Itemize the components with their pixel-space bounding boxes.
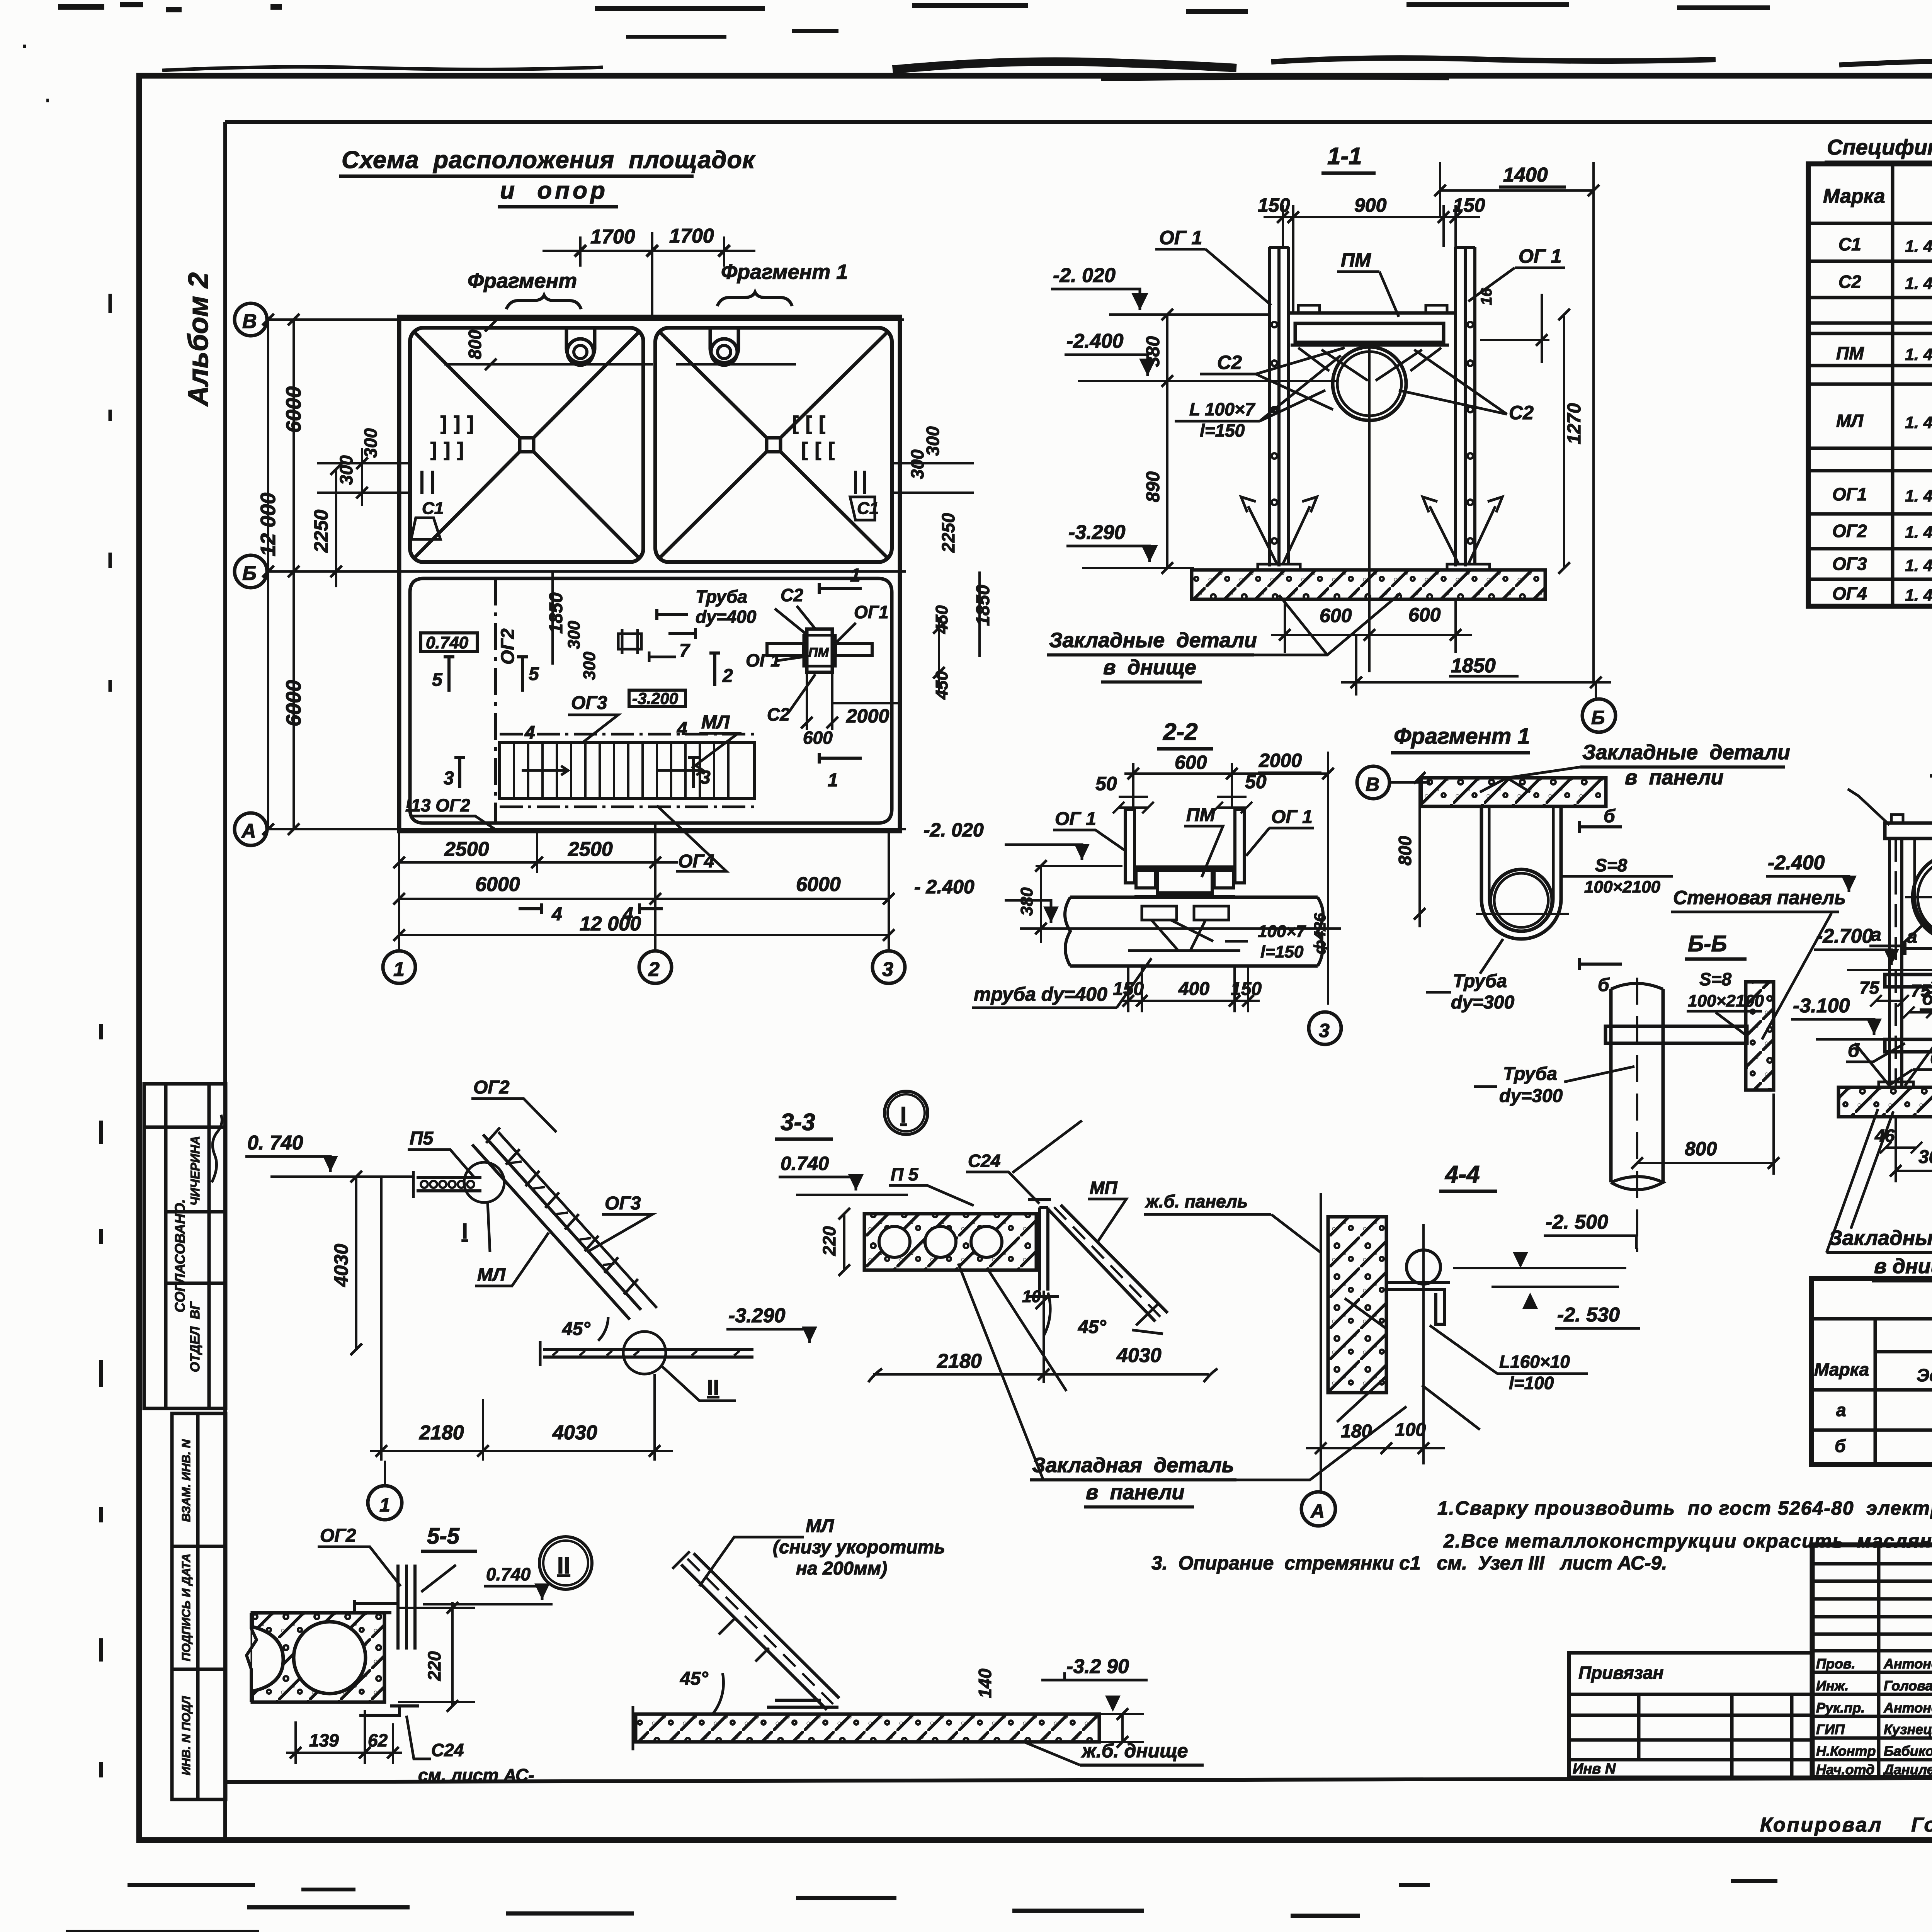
svg-text:С2: С2 xyxy=(767,704,790,724)
detail circle I at top xyxy=(464,1162,504,1202)
platform top plate xyxy=(1289,311,1457,315)
svg-text:7: 7 xyxy=(679,641,690,661)
svg-text:Закладные детали: Закладные детали xyxy=(1049,629,1257,652)
svg-text:0.740: 0.740 xyxy=(486,1564,531,1584)
svg-text:300: 300 xyxy=(336,455,356,485)
svg-text:45°: 45° xyxy=(680,1668,708,1689)
svg-text:труба dy=400: труба dy=400 xyxy=(974,983,1107,1005)
svg-text:Антонова: Антонова xyxy=(1883,1656,1932,1672)
svg-text:Труба: Труба xyxy=(1453,971,1507,992)
svg-text:ОГ4: ОГ4 xyxy=(1832,583,1867,604)
svg-text:0.740: 0.740 xyxy=(781,1153,829,1174)
svg-text:и опор: и опор xyxy=(500,177,608,204)
section marks 1 right xyxy=(819,583,862,594)
svg-text:Марка: Марка xyxy=(1823,185,1885,207)
svg-text:Б: Б xyxy=(242,562,257,585)
svg-text:L160×10: L160×10 xyxy=(1499,1352,1570,1372)
svg-text:1. 450. 3 - 3. 1: 1. 450. 3 - 3. 1 xyxy=(1905,274,1932,293)
main title block xyxy=(1812,1545,1932,1777)
svg-text:МЛ: МЛ xyxy=(701,712,730,733)
svg-text:S=8: S=8 xyxy=(1595,855,1628,875)
signature squiggle xyxy=(212,1115,222,1182)
svg-text:-2.400: -2.400 xyxy=(1066,330,1124,352)
svg-text:П5: П5 xyxy=(410,1128,434,1149)
bottom dim 2500 2500 xyxy=(399,861,678,864)
ladder МП xyxy=(1048,1205,1168,1321)
panel with holes xyxy=(864,1214,1036,1270)
axis row circle В xyxy=(235,303,267,336)
svg-text:ЧИЧЕРИНА: ЧИЧЕРИНА xyxy=(188,1136,202,1206)
svg-text:dy=300: dy=300 xyxy=(1451,992,1514,1013)
svg-text:-3.2 90: -3.2 90 xyxy=(1066,1655,1129,1678)
SEC33 xyxy=(245,1077,833,1520)
svg-text:600: 600 xyxy=(803,728,833,748)
svg-text:б: б xyxy=(1598,975,1610,995)
svg-text:l=100: l=100 xyxy=(1509,1373,1554,1393)
leader to panel xyxy=(1480,767,1580,792)
svg-text:4030: 4030 xyxy=(330,1244,352,1287)
right tank X diagonals xyxy=(661,333,886,557)
svg-text:3: 3 xyxy=(444,768,454,789)
svg-text:ОГ3: ОГ3 xyxy=(571,693,607,713)
column extension lines xyxy=(398,831,400,951)
svg-text:Закладные детали: Закладные детали xyxy=(1582,741,1790,764)
svg-text:-2. 530: -2. 530 xyxy=(1557,1304,1620,1326)
SEC44 xyxy=(1301,1161,1640,1526)
svg-text:б: б xyxy=(1835,1436,1846,1456)
svg-text:1-1: 1-1 xyxy=(1327,143,1362,170)
svg-text:б: б xyxy=(1922,988,1932,1009)
-3.200 boxed level xyxy=(629,690,685,706)
svg-text:ОГ2: ОГ2 xyxy=(473,1077,510,1098)
svg-text:-3.200: -3.200 xyxy=(632,689,678,707)
svg-text:I: I xyxy=(462,1219,468,1243)
svg-text:а: а xyxy=(1871,925,1881,945)
svg-text:6000: 6000 xyxy=(475,873,520,896)
svg-text:150: 150 xyxy=(1453,194,1485,216)
svg-text:ж.б. панель: ж.б. панель xyxy=(1145,1191,1248,1211)
svg-text:Голованова: Голованова xyxy=(1884,1678,1932,1694)
left inner margin line xyxy=(223,122,227,1840)
svg-text:Закладные детали: Закладные детали xyxy=(1829,1226,1932,1250)
platform beam xyxy=(1295,323,1444,342)
svg-text:1. 450. 3 - 3. 1: 1. 450. 3 - 3. 1 xyxy=(1905,487,1932,505)
svg-text:1850: 1850 xyxy=(973,585,993,626)
svg-text:Данилевский: Данилевский xyxy=(1883,1762,1932,1777)
svg-text:45°: 45° xyxy=(1078,1317,1106,1337)
small circle (bar) xyxy=(1406,1250,1440,1284)
big pipe xyxy=(1070,897,1318,966)
top-left corner smudges xyxy=(58,5,282,10)
SEC55 xyxy=(247,1524,592,1785)
top cap beam xyxy=(1885,823,1932,838)
svg-text:5-5: 5-5 xyxy=(427,1524,460,1549)
left margin table Согласовано xyxy=(144,1084,226,1408)
svg-text:-2.700: -2.700 xyxy=(1816,925,1873,947)
svg-text:10: 10 xyxy=(1022,1287,1041,1306)
svg-text:2180: 2180 xyxy=(419,1422,464,1444)
svg-text:ОТДЕЛ ВГ: ОТДЕЛ ВГ xyxy=(188,1301,202,1372)
svg-text:600: 600 xyxy=(1320,605,1352,626)
svg-text:900: 900 xyxy=(1354,194,1387,216)
svg-text:Марка: Марка xyxy=(1814,1359,1869,1379)
top streak left xyxy=(162,67,603,70)
dim 2250 + 300 left xyxy=(335,469,337,587)
svg-text:180: 180 xyxy=(1341,1421,1372,1442)
small pipe mark mid xyxy=(618,629,641,654)
svg-text:1. 450 3 - 3. 1: 1. 450 3 - 3. 1 xyxy=(1905,413,1932,432)
svg-text:Нач.отд: Нач.отд xyxy=(1816,1762,1874,1777)
svg-text:С2: С2 xyxy=(1509,402,1534,423)
left tank X diagonals xyxy=(415,333,638,557)
svg-text:1700: 1700 xyxy=(590,226,635,248)
platform assembly xyxy=(1134,866,1235,869)
VEDOMOST xyxy=(1811,1279,1932,1464)
svg-text:100×2100: 100×2100 xyxy=(1584,878,1661,896)
svg-text:220: 220 xyxy=(819,1226,839,1256)
section mark б lower xyxy=(1580,958,1622,970)
svg-text:МП: МП xyxy=(1090,1178,1117,1198)
U-loop hanger xyxy=(1481,806,1561,939)
svg-text:ОГ 1: ОГ 1 xyxy=(1519,245,1561,267)
svg-text:1: 1 xyxy=(393,958,405,981)
svg-text:2250: 2250 xyxy=(310,510,332,553)
svg-text:800: 800 xyxy=(1685,1138,1717,1160)
svg-text:dy=400: dy=400 xyxy=(696,607,757,627)
svg-text:140: 140 xyxy=(975,1668,995,1698)
svg-text:-3.100: -3.100 xyxy=(1793,995,1850,1017)
svg-text:Фрагмент: Фрагмент xyxy=(468,269,577,293)
svg-text:С24: С24 xyxy=(968,1151,1000,1171)
svg-text:II: II xyxy=(707,1375,719,1400)
svg-text:С2: С2 xyxy=(1838,272,1861,292)
svg-text:4: 4 xyxy=(677,719,687,739)
svg-text:139: 139 xyxy=(309,1730,339,1750)
axis vertical line xyxy=(1320,1193,1322,1464)
section marks 5 5 xyxy=(444,657,454,692)
svg-text:1: 1 xyxy=(850,565,861,586)
anchor V left xyxy=(1248,506,1310,564)
svg-text:Бабикова.: Бабикова. xyxy=(1884,1743,1932,1759)
section marks 3 3 xyxy=(454,757,465,788)
svg-text:II: II xyxy=(557,1553,570,1578)
svg-text:2000: 2000 xyxy=(1259,750,1302,771)
svg-text:5: 5 xyxy=(529,664,539,684)
svg-text:380: 380 xyxy=(1143,336,1163,367)
centerline xyxy=(1368,348,1371,672)
svg-text:в панели: в панели xyxy=(1086,1481,1185,1504)
svg-text:ОГ1: ОГ1 xyxy=(854,602,889,622)
SEC22 xyxy=(914,719,1341,1044)
svg-text:1. 450. 3 - 3. 1: 1. 450. 3 - 3. 1 xyxy=(1905,237,1932,256)
floor band hatched xyxy=(636,1714,1099,1742)
svg-text:800: 800 xyxy=(1395,836,1415,866)
DETI xyxy=(779,1091,1406,1507)
bottom dim 6000 6000 xyxy=(399,898,889,900)
С24 bracket vertical xyxy=(1028,1200,1059,1296)
svg-text:3-3: 3-3 xyxy=(781,1109,815,1136)
svg-text:ИНВ. N ПОДЛ: ИНВ. N ПОДЛ xyxy=(179,1696,193,1776)
right post ОГ1 xyxy=(1456,247,1475,566)
svg-text:ВЗАМ. ИНВ. N: ВЗАМ. ИНВ. N xyxy=(179,1439,193,1522)
svg-text:МЛ: МЛ xyxy=(1836,411,1864,431)
svg-text:ПМ: ПМ xyxy=(808,645,829,660)
ladder rungs xyxy=(486,1128,638,1294)
left post ОГ1 xyxy=(1269,247,1289,566)
svg-text:2.Все металлоконструкции окрас: 2.Все металлоконструкции окрасить маслян… xyxy=(1443,1530,1932,1552)
svg-text:ОГ3: ОГ3 xyxy=(1832,554,1867,574)
svg-text:!13 ОГ2: !13 ОГ2 xyxy=(405,795,470,815)
vertical line down from bracket xyxy=(1043,1291,1045,1383)
svg-text:1850: 1850 xyxy=(1451,655,1496,677)
svg-text:6000: 6000 xyxy=(282,680,305,726)
dim 1270 right xyxy=(1563,315,1565,568)
svg-text:6000: 6000 xyxy=(282,386,305,433)
column circle 1 xyxy=(384,1461,386,1486)
big pipe circle xyxy=(1913,854,1932,940)
svg-text:5: 5 xyxy=(432,670,443,690)
svg-text:на 200мм): на 200мм) xyxy=(796,1558,887,1579)
content bottom line xyxy=(225,1777,1932,1782)
left tank top notch + drain circle xyxy=(566,328,595,363)
С24 bracket xyxy=(398,1565,415,1650)
svg-text:l=150: l=150 xyxy=(1260,942,1304,961)
pipe detail ПМ box xyxy=(807,629,832,672)
svg-text:4: 4 xyxy=(551,904,562,925)
svg-text:а: а xyxy=(1836,1400,1846,1420)
svg-text:ж.б. днище: ж.б. днище xyxy=(1081,1740,1188,1762)
bottom dim 12000 xyxy=(399,934,889,936)
svg-text:S=8: S=8 xyxy=(1699,969,1732,989)
TITLEBLOCK xyxy=(1569,1545,1932,1838)
svg-text:1: 1 xyxy=(379,1494,390,1516)
panel hatched with circles xyxy=(252,1613,384,1702)
svg-text:ОГ1: ОГ1 xyxy=(1832,484,1867,504)
top inner band line xyxy=(225,120,1932,124)
svg-text:СОГЛАСОВАНО.: СОГЛАСОВАНО. xyxy=(172,1199,188,1312)
vertical dim 380/890 xyxy=(1166,315,1168,568)
left vertical dim 12000 xyxy=(267,320,269,829)
column circle 1 xyxy=(383,951,415,983)
left tank rounded square xyxy=(410,328,643,562)
base plates xyxy=(1879,1082,1913,1087)
floor hatched xyxy=(1838,1087,1932,1117)
svg-text:МЛ: МЛ xyxy=(477,1265,506,1285)
left tank centre square xyxy=(520,438,534,452)
svg-text:2500: 2500 xyxy=(444,838,489,861)
right tank top notch + drain circle xyxy=(710,328,738,363)
svg-text:[[[: [[[ xyxy=(801,439,842,460)
Привязан mini table xyxy=(1569,1653,1812,1777)
svg-text:Н.Контр: Н.Контр xyxy=(1816,1743,1876,1759)
svg-text:ПМ: ПМ xyxy=(1186,805,1216,825)
svg-text:380: 380 xyxy=(1017,887,1036,916)
svg-text:1. 450. 3 - 3. 1: 1. 450. 3 - 3. 1 xyxy=(1905,345,1932,364)
svg-text:ОГ2: ОГ2 xyxy=(1832,521,1867,541)
svg-text:Привязан: Привязан xyxy=(1578,1663,1663,1683)
svg-text:Закладная деталь: Закладная деталь xyxy=(1032,1454,1234,1477)
top heavy streaks middle xyxy=(893,61,1236,70)
column circle 2 xyxy=(639,951,672,983)
floor slab hatched xyxy=(1192,570,1545,599)
dim 800 xyxy=(1418,778,1421,927)
svg-text:3: 3 xyxy=(882,958,893,981)
svg-text:-3.290: -3.290 xyxy=(728,1304,786,1327)
svg-text:3: 3 xyxy=(700,767,711,788)
svg-text:1850: 1850 xyxy=(546,592,566,634)
wall panel hatched xyxy=(1746,982,1774,1090)
SEC77 xyxy=(1827,746,1932,1281)
svg-text:С2: С2 xyxy=(781,585,803,605)
В axis circle xyxy=(1357,766,1389,799)
svg-text:Схема расположения площадок: Схема расположения площадок xyxy=(342,146,756,173)
svg-text:1.Сварку производить по гост: 1.Сварку производить по гост 5264-80 эле… xyxy=(1437,1497,1932,1519)
DETII xyxy=(633,1516,1204,1765)
svg-text:Альбом 2: Альбом 2 xyxy=(183,272,214,407)
svg-text:0.740: 0.740 xyxy=(426,633,469,652)
foot plate xyxy=(767,1700,838,1707)
svg-text:3: 3 xyxy=(1319,1020,1330,1041)
svg-text:Труба: Труба xyxy=(696,587,747,607)
svg-text:Фрагмент 1: Фрагмент 1 xyxy=(1394,724,1530,749)
mid beam xyxy=(1885,975,1932,987)
Б circle below xyxy=(1595,682,1597,699)
svg-text:Рук.пр.: Рук.пр. xyxy=(1816,1700,1865,1716)
pipe circle dy300 xyxy=(1490,869,1552,931)
svg-text:В: В xyxy=(242,310,257,333)
left edge dashes xyxy=(99,1024,103,1777)
svg-text:2180: 2180 xyxy=(937,1350,982,1372)
svg-text:890: 890 xyxy=(1143,471,1163,502)
svg-text:Кузнецов: Кузнецов xyxy=(1884,1721,1932,1737)
svg-text:МЛ: МЛ xyxy=(806,1516,834,1536)
svg-text:- 2.400: - 2.400 xyxy=(914,876,975,898)
dash-dot line above stair xyxy=(500,733,754,736)
right tank centre square xyxy=(767,438,781,452)
svg-text:2250: 2250 xyxy=(938,513,958,553)
svg-text:100: 100 xyxy=(1395,1420,1426,1440)
right tank rounded square xyxy=(655,328,892,562)
lower room rounded rect xyxy=(410,578,892,823)
SPECTABLE xyxy=(1808,135,1932,606)
svg-text:в панели: в панели xyxy=(1625,766,1724,789)
C1 ladder stub left xyxy=(399,471,433,494)
left post xyxy=(1889,838,1902,1087)
svg-text:Антонова: Антонова xyxy=(1883,1700,1932,1716)
vertical dim 4030 xyxy=(355,1177,357,1349)
ladder xyxy=(681,1553,839,1710)
anchor V right xyxy=(1430,506,1495,564)
section marks 2 xyxy=(709,653,720,686)
220 dim xyxy=(451,1602,454,1706)
anchors xyxy=(1855,1043,1932,1086)
svg-text:4030: 4030 xyxy=(1116,1344,1162,1367)
U hanger around pipe xyxy=(1915,838,1932,938)
svg-text:-2. 020: -2. 020 xyxy=(1053,264,1116,287)
left vertical dim 6000/6000 xyxy=(293,320,295,829)
0.740 boxed level xyxy=(421,633,477,651)
svg-text:45°: 45° xyxy=(562,1319,590,1339)
svg-text:1. 450. 3 -3. 1: 1. 450. 3 -3. 1 xyxy=(1905,586,1932,605)
pipe circle xyxy=(1333,347,1406,420)
svg-text:1270: 1270 xyxy=(1564,403,1585,444)
svg-text:С1: С1 xyxy=(1838,234,1861,254)
svg-text:П 5: П 5 xyxy=(891,1164,919,1184)
svg-text:300: 300 xyxy=(565,621,583,649)
axis line Б xyxy=(267,570,906,573)
svg-text:ПМ: ПМ xyxy=(1341,249,1371,271)
post right xyxy=(1235,810,1244,883)
svg-text:А: А xyxy=(1310,1500,1325,1522)
svg-text:-2. 500: -2. 500 xyxy=(1546,1211,1608,1233)
svg-text:300: 300 xyxy=(361,428,381,458)
svg-text:4: 4 xyxy=(524,723,535,743)
svg-text:см. лист АС-: см. лист АС- xyxy=(418,1765,534,1785)
svg-text:100×7: 100×7 xyxy=(1258,922,1306,941)
svg-text:2000: 2000 xyxy=(846,705,889,727)
centering lines xyxy=(1476,913,1569,915)
svg-text:300: 300 xyxy=(580,651,599,680)
table outer xyxy=(1811,1279,1932,1464)
lower room: dash-dot divider xyxy=(494,578,497,823)
svg-text:ПМ: ПМ xyxy=(1836,343,1864,363)
saddle details on pipe xyxy=(1159,893,1209,897)
svg-text:ОГ3: ОГ3 xyxy=(605,1193,641,1214)
svg-text:1400: 1400 xyxy=(1503,164,1548,186)
svg-text:2: 2 xyxy=(648,958,660,981)
svg-text:12 000: 12 000 xyxy=(257,493,280,556)
section mark б upper xyxy=(1580,821,1622,833)
svg-text:Пров.: Пров. xyxy=(1816,1656,1855,1672)
svg-text:Инж.: Инж. xyxy=(1816,1678,1849,1694)
svg-text:1: 1 xyxy=(828,770,838,791)
vertical pipe xyxy=(1611,989,1663,1182)
detail I circle big xyxy=(884,1091,928,1134)
svg-text:А: А xyxy=(241,820,256,842)
svg-text:50: 50 xyxy=(1095,773,1117,794)
bottom noise dashes xyxy=(128,1885,355,1889)
svg-text:ОГ 1: ОГ 1 xyxy=(1159,227,1202,248)
svg-text:6000: 6000 xyxy=(796,873,841,896)
svg-text:600: 600 xyxy=(1408,604,1441,626)
axis row circle А xyxy=(235,813,267,845)
svg-text:220: 220 xyxy=(424,1651,444,1681)
svg-text:С1: С1 xyxy=(422,499,444,518)
bracket xyxy=(1386,1282,1450,1324)
svg-text:0. 740: 0. 740 xyxy=(247,1132,303,1154)
svg-text:75: 75 xyxy=(1859,978,1880,998)
spec table grid xyxy=(1808,164,1932,606)
axis line В xyxy=(267,318,904,321)
svg-text:300: 300 xyxy=(923,426,943,456)
column circle 3 xyxy=(872,951,905,983)
svg-text:[[[: [[[ xyxy=(792,412,832,434)
svg-text:300: 300 xyxy=(1918,1147,1932,1167)
svg-text:ОГ 1: ОГ 1 xyxy=(1055,809,1096,829)
axis row circle Б xyxy=(235,555,267,588)
svg-text:ф426: ф426 xyxy=(1311,913,1329,954)
svg-text:ОГ2: ОГ2 xyxy=(498,628,518,665)
svg-text:600: 600 xyxy=(1175,752,1207,773)
ladder inclined xyxy=(472,1134,641,1320)
svg-text:800: 800 xyxy=(465,330,485,359)
svg-text:4-4: 4-4 xyxy=(1444,1161,1480,1188)
svg-text:12 000: 12 000 xyxy=(580,913,641,935)
svg-text:Фрагмент 1: Фрагмент 1 xyxy=(721,260,848,284)
svg-text:150: 150 xyxy=(1258,194,1290,216)
svg-text:в днище: в днище xyxy=(1103,656,1196,679)
svg-text:16: 16 xyxy=(1478,288,1495,305)
